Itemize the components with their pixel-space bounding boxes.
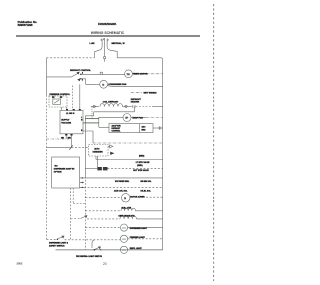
freezer control terminals [52,96,54,98]
svg-text:AUX COIL SOL: AUX COIL SOL [114,190,128,193]
header rule [16,35,200,36]
svg-text:4: 4 [82,79,83,82]
svg-text:REFR. LIGHT: REFR. LIGHT [130,248,143,250]
row3 [84,177,163,179]
ice maker box [89,145,109,157]
right rail [162,60,164,250]
dispenser box [52,157,80,188]
svg-text:CONDENSER FAN: CONDENSER FAN [108,83,127,86]
svg-text:DEFR DRAIN HTR: DEFR DRAIN HTR [119,215,136,218]
svg-text:2002: 2002 [17,261,23,265]
row8 dispenser light [85,227,120,229]
supply box right stubs [83,122,99,124]
svg-text:FREEZER CONTROL: FREEZER CONTROL [50,94,71,96]
svg-text:MULL HTR: MULL HTR [122,207,132,209]
svg-text:HOT WTR VALVE: HOT WTR VALVE [133,169,149,172]
svg-text:DISPENSER LIGHT &: DISPENSER LIGHT & [49,243,69,245]
dashed vertical x92 [91,107,93,119]
ice maker feed wire [47,147,72,149]
svg-text:AUTO: AUTO [94,147,100,150]
wire: neutral to right rail [117,58,163,60]
stubs freezer control to supply box [52,96,54,98]
arrow connector [108,145,113,148]
bottom wire [56,249,163,251]
svg-text:ADC: ADC [142,126,147,129]
freezer control dashed box [49,96,67,107]
svg-text:2: 2 [82,73,83,75]
svg-text:HEATER: HEATER [131,101,140,104]
left rail solid [46,58,48,95]
wire: switch contact 1 to timer motor [82,73,125,75]
wire: line dashed to left rail [47,57,95,59]
svg-text:5995371298: 5995371298 [18,23,33,27]
svg-text:FRZ REFRIG. LIGHT SWITCH: FRZ REFRIG. LIGHT SWITCH [76,256,103,258]
power plug [94,38,117,58]
defrost control switch [72,72,82,81]
svg-text:BRD: BRD [142,129,147,131]
svg-text:MOTOR AUGER: MOTOR AUGER [130,195,145,198]
row7 drain heater with switch [71,218,81,220]
wire: timer motor to rail dash-dot [132,73,146,75]
svg-text:OPTION: OPTION [54,172,62,174]
ADC box [109,124,153,133]
svg-text:20: 20 [103,262,107,266]
svg-text:BR-WH SOL: BR-WH SOL [141,181,153,183]
branch down to supply box N [79,84,81,110]
legend dash-dot + note [131,91,142,93]
svg-text:VOLTAGE: VOLTAGE [61,122,71,125]
defrost timer motor circle [125,70,133,78]
wire to defrost control [47,76,72,78]
svg-text:SUPPLY: SUPPLY [61,120,70,122]
svg-text:DEFROST CONTROL: DEFROST CONTROL [70,70,92,72]
inline connector terminal on timer wire [100,72,102,74]
row5 auger wire [85,196,121,198]
svg-text:EVAP FAN: EVAP FAN [133,117,144,120]
row branch y203.5 [73,203,85,205]
junction cross near rail [158,126,162,130]
junction connector ticks [69,145,73,150]
svg-text:DISPENSER LIGHT: DISPENSER LIGHT [130,228,148,230]
row6 mullion heater [85,210,121,212]
svg-text:DISPENSER ASSY W/: DISPENSER ASSY W/ [54,168,75,171]
row9 freezer light + safety switch [47,238,57,240]
vertical bus x85.3 [84,116,86,177]
svg-text:DK-BL SOL: DK-BL SOL [141,190,152,192]
dispenser box pins [80,177,84,188]
auger motor circle [122,194,130,202]
row1 water valve wire [96,156,163,160]
wire B [94,111,135,113]
svg-text:L-BK: L-BK [90,43,95,45]
svg-text:WIRING SCHEMATIC: WIRING SCHEMATIC [91,31,125,35]
wire: cond fan to rail [107,85,163,88]
row4 [84,186,163,188]
freezer control thermostat symbol [53,99,61,104]
svg-text:LT WTR VALVE: LT WTR VALVE [136,161,150,164]
svg-text:NO: NO [55,166,58,168]
wire: switch contact 2 down to cond fan [82,79,100,85]
schematic small texts [49,42,157,258]
svg-text:ICEMAKER: ICEMAKER [93,151,104,154]
ground dashed vertical to supply box [72,86,74,111]
svg-text:(RED): (RED) [137,165,143,167]
svg-text:FRS26ZRGWA: FRS26ZRGWA [98,22,116,26]
svg-text:NEUTRAL, W: NEUTRAL, W [112,42,125,45]
supply box bottom stubs [65,136,67,140]
supply box [60,110,83,133]
evaporator fan motor circle [123,114,131,122]
plug ground lead with connector [103,44,105,62]
left rail dashed [46,95,48,239]
row2 water valve solenoid [85,156,162,170]
ground dash-dot wire [47,138,72,140]
svg-text:(RED): (RED) [139,155,145,157]
svg-text:W POWER WHL: W POWER WHL [115,181,130,183]
vertical x98.8 [98,117,100,127]
condenser fan motor circle [100,80,108,88]
defrost heater wire A with coil [91,104,163,112]
right edge dashed scan line [213,4,215,281]
wire C [85,118,99,120]
vertical from dispenser box bottom [70,188,72,240]
svg-text:SAFETY SWITCH: SAFETY SWITCH [49,244,65,247]
supply box terminals [65,134,67,136]
svg-text:FREEZER LIGHT: FREEZER LIGHT [130,237,146,239]
svg-text:TIMER MOTOR: TIMER MOTOR [133,74,148,76]
svg-text:CONTROL: CONTROL [112,130,122,132]
svg-text:COIL DEFROST: COIL DEFROST [103,102,119,104]
row10 refr light + door switch [56,249,95,251]
svg-text:L1 GR N: L1 GR N [66,113,75,115]
svg-text:WHT WIRING: WHT WIRING [144,93,157,95]
vertical bus x86 lower [84,177,86,250]
svg-text:TM: TM [127,74,130,76]
